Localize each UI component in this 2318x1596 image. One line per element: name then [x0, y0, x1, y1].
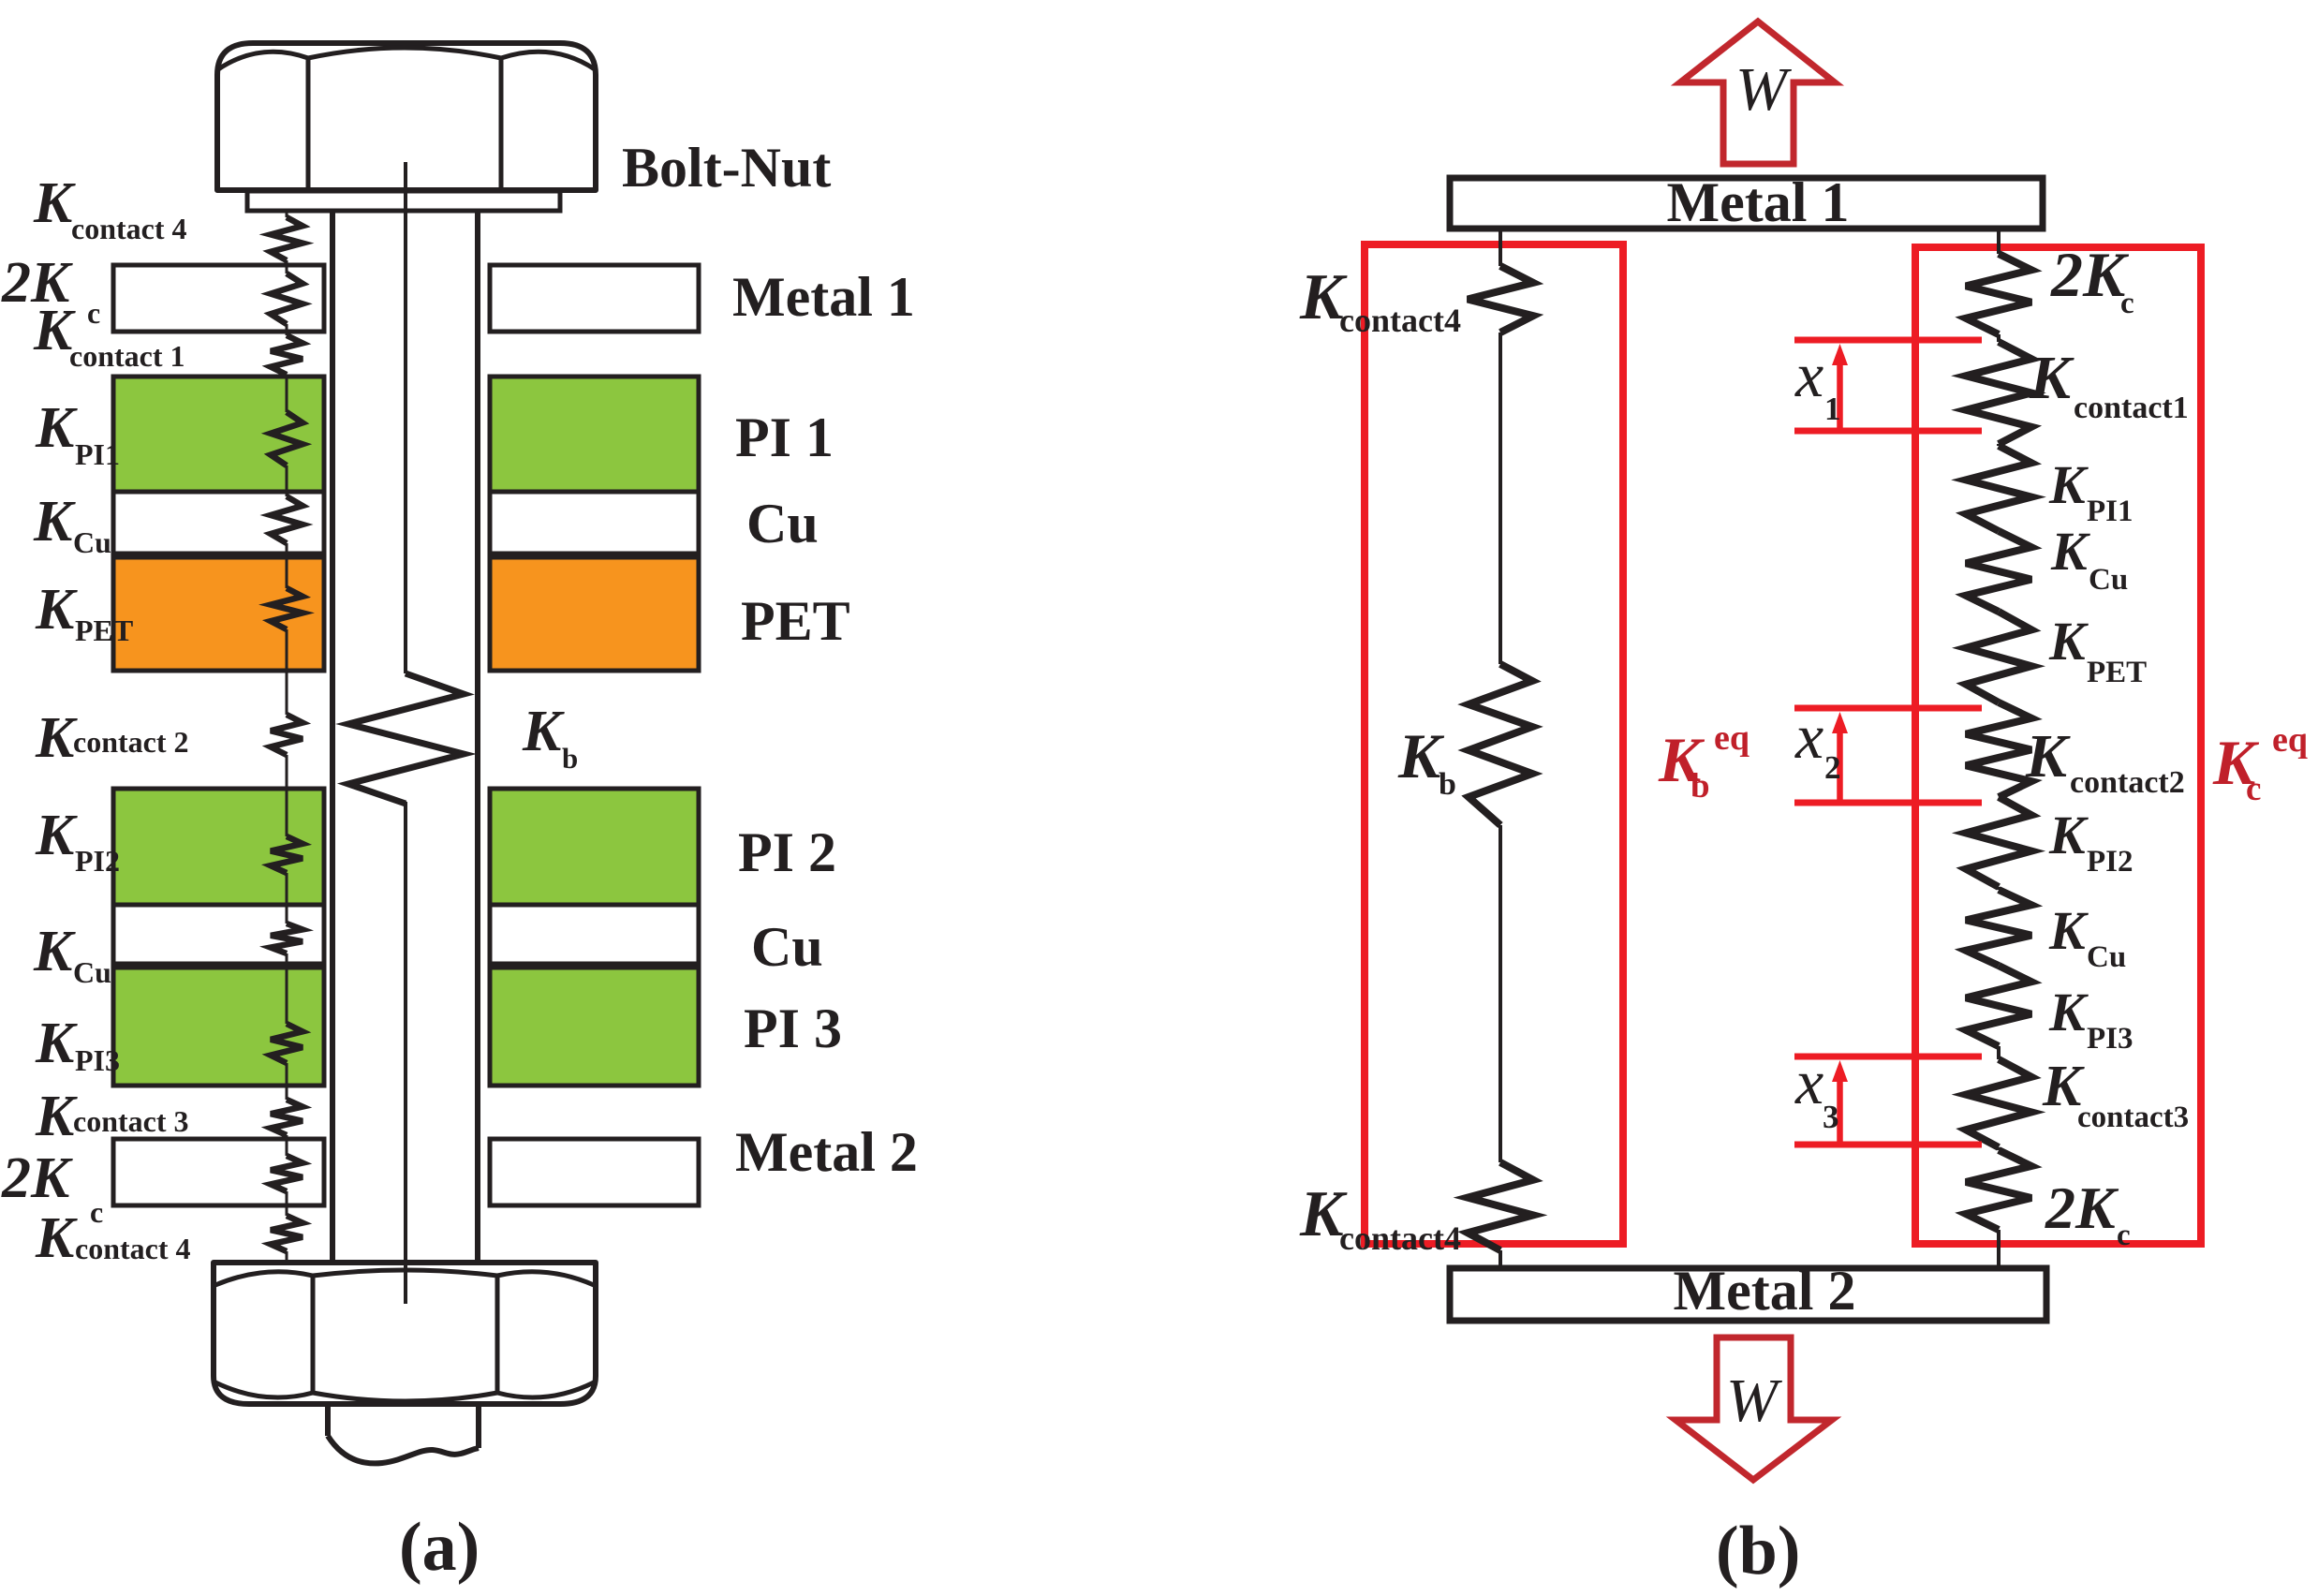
svg-text:c: c — [2117, 1219, 2131, 1252]
svg-text:K: K — [2048, 982, 2089, 1042]
svg-text:K: K — [35, 1012, 78, 1075]
svg-text:(b): (b) — [1716, 1513, 1800, 1589]
svg-text:K: K — [35, 804, 78, 867]
svg-text:b: b — [1439, 767, 1456, 802]
svg-text:x: x — [1794, 1046, 1823, 1117]
svg-text:eq: eq — [2272, 720, 2308, 760]
svg-text:K: K — [35, 706, 78, 770]
svg-text:PI 3: PI 3 — [744, 997, 842, 1059]
svg-text:contact 4: contact 4 — [75, 1232, 191, 1265]
svg-text:x: x — [1794, 339, 1823, 410]
svg-text:PI2: PI2 — [75, 844, 120, 878]
svg-text:Cu: Cu — [2089, 563, 2128, 597]
svg-text:eq: eq — [1714, 718, 1750, 758]
svg-text:PI1: PI1 — [2087, 495, 2133, 528]
svg-text:Metal 2: Metal 2 — [735, 1121, 918, 1183]
svg-text:b: b — [562, 742, 578, 775]
svg-text:Metal 1: Metal 1 — [732, 266, 915, 328]
svg-text:W: W — [1726, 1367, 1782, 1435]
svg-text:K: K — [33, 920, 76, 983]
svg-text:K: K — [2025, 722, 2071, 791]
svg-text:Cu: Cu — [73, 525, 111, 559]
svg-text:contact 3: contact 3 — [73, 1104, 189, 1138]
svg-text:contact1: contact1 — [2074, 391, 2189, 425]
svg-text:K: K — [522, 700, 565, 763]
svg-text:2K: 2K — [2050, 239, 2130, 310]
svg-text:K: K — [2050, 521, 2090, 582]
svg-text:PET: PET — [2087, 656, 2147, 689]
svg-text:PI3: PI3 — [75, 1043, 120, 1077]
svg-text:K: K — [2029, 344, 2074, 412]
svg-text:c: c — [90, 1195, 103, 1229]
svg-text:contact4: contact4 — [1339, 302, 1461, 339]
svg-text:3: 3 — [1823, 1099, 1839, 1135]
svg-text:K: K — [35, 1206, 78, 1270]
svg-text:K: K — [33, 171, 76, 235]
svg-text:b: b — [1691, 767, 1710, 805]
svg-text:PET: PET — [75, 613, 133, 647]
svg-text:x: x — [1794, 701, 1823, 772]
svg-text:2: 2 — [1824, 749, 1841, 786]
svg-text:contact3: contact3 — [2077, 1101, 2189, 1134]
svg-text:Cu: Cu — [746, 493, 819, 554]
svg-text:1: 1 — [1824, 391, 1841, 427]
svg-text:PI 2: PI 2 — [738, 821, 836, 883]
svg-text:PI2: PI2 — [2087, 845, 2133, 879]
svg-text:K: K — [35, 396, 78, 460]
svg-text:contact2: contact2 — [2070, 765, 2185, 800]
svg-text:Cu: Cu — [2087, 940, 2126, 974]
svg-text:PI3: PI3 — [2087, 1022, 2133, 1056]
svg-text:c: c — [87, 296, 100, 330]
svg-text:2K: 2K — [2045, 1175, 2119, 1241]
svg-text:Bolt-Nut: Bolt-Nut — [622, 137, 831, 199]
svg-text:K: K — [2048, 805, 2089, 865]
svg-text:K: K — [35, 1085, 78, 1148]
svg-text:PI1: PI1 — [75, 437, 120, 471]
svg-text:c: c — [2246, 770, 2261, 808]
svg-text:Cu: Cu — [751, 916, 823, 978]
svg-text:K: K — [2048, 454, 2089, 515]
svg-text:Metal 1: Metal 1 — [1667, 171, 1850, 233]
svg-text:2K: 2K — [1, 1146, 73, 1210]
svg-text:contact 1: contact 1 — [69, 339, 185, 373]
svg-text:PET: PET — [741, 590, 850, 652]
svg-text:contact 4: contact 4 — [71, 212, 187, 245]
svg-text:K: K — [33, 490, 76, 554]
svg-text:(a): (a) — [399, 1509, 480, 1586]
svg-text:K: K — [2048, 900, 2089, 961]
svg-text:contact 2: contact 2 — [73, 725, 189, 759]
svg-text:K: K — [35, 578, 78, 642]
svg-text:Cu: Cu — [73, 955, 111, 989]
svg-text:W: W — [1735, 55, 1792, 124]
svg-text:K: K — [2048, 611, 2089, 672]
svg-text:contact4: contact4 — [1339, 1219, 1461, 1257]
svg-text:PI 1: PI 1 — [735, 406, 834, 468]
svg-text:c: c — [2120, 287, 2134, 320]
svg-text:Metal 2: Metal 2 — [1674, 1260, 1856, 1322]
